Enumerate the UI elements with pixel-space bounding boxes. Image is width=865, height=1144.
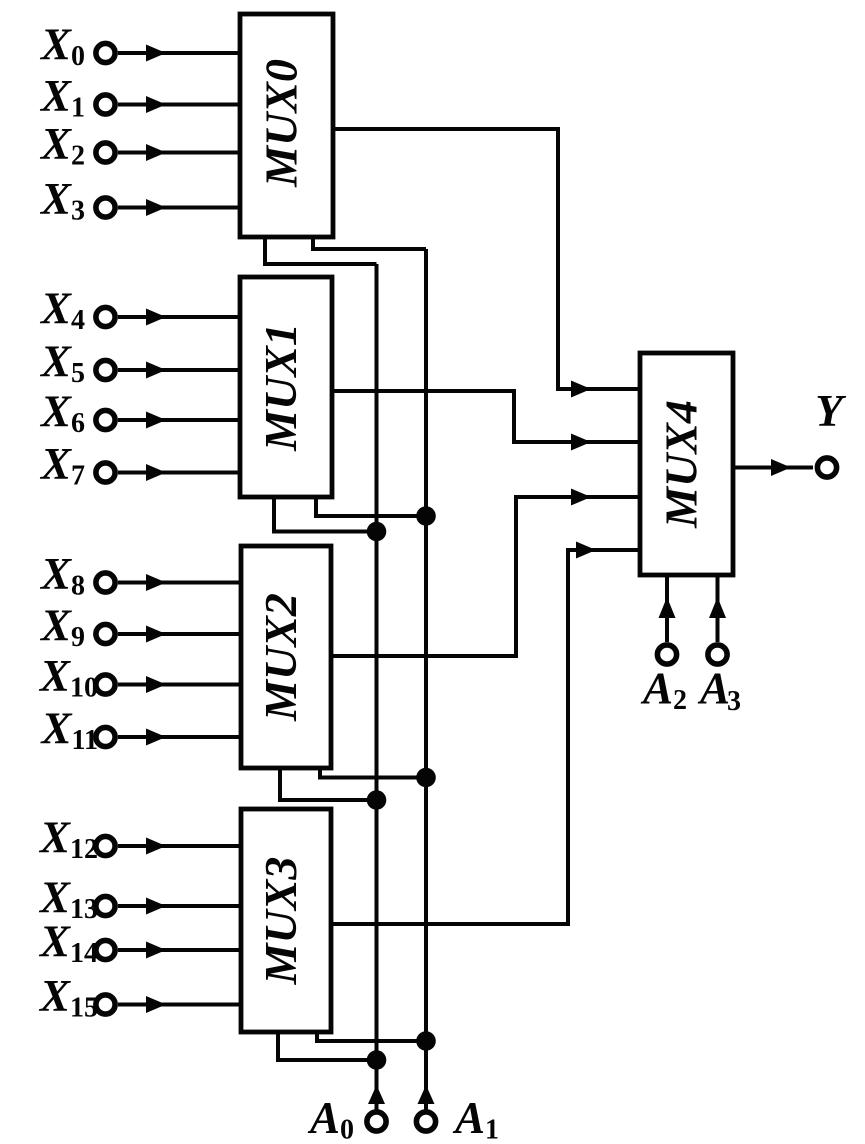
wire MUX2 select pin b to net A1 <box>320 768 426 778</box>
input terminal X10 <box>38 651 115 704</box>
net A0 vertical bus <box>368 264 385 1111</box>
wire X14 to MUX3 pin <box>118 942 241 959</box>
input terminal X8 <box>39 549 115 602</box>
wire X1 to MUX0 pin <box>118 96 240 113</box>
select terminal A0 <box>307 1093 386 1144</box>
wire MUX4 output to Y <box>733 459 813 476</box>
select terminal A2 <box>640 645 687 716</box>
input terminal X1 <box>39 71 115 124</box>
junction A1 bus / MUX2 select <box>416 768 436 788</box>
input terminal X13 <box>38 873 115 926</box>
wire X11 to MUX2 pin <box>118 729 241 746</box>
input terminal X14 <box>38 917 115 970</box>
wire MUX0 select pin a to net A0 <box>265 237 377 264</box>
input terminal X4 <box>39 284 115 337</box>
junction A0 bus / MUX2 select <box>367 790 387 810</box>
wire X2 to MUX0 pin <box>118 144 240 161</box>
input terminal X12 <box>38 813 115 866</box>
svg-text:Y: Y <box>815 386 846 436</box>
wire MUX0 select pin b to net A1 <box>313 237 426 249</box>
wire X8 to MUX2 pin <box>118 574 241 591</box>
svg-text:MUX0: MUX0 <box>256 59 307 188</box>
wire MUX3 select pin b to net A1 <box>317 1032 426 1041</box>
wire X3 to MUX0 pin <box>118 199 240 216</box>
junction A1 bus / MUX1 select <box>416 506 436 526</box>
wire MUX1 select pin a to net A0 <box>274 497 377 532</box>
input terminal X11 <box>40 704 116 757</box>
wire select terminal A3 to MUX4 <box>709 575 726 642</box>
net A1 vertical bus <box>418 249 435 1111</box>
wire MUX3 select pin a to net A0 <box>278 1032 377 1060</box>
select terminal A1 <box>416 1093 499 1144</box>
svg-text:MUX3: MUX3 <box>255 857 306 986</box>
junction A0 bus / MUX3 select <box>367 1050 387 1070</box>
wire MUX0 output to MUX4 input 1 <box>333 129 640 398</box>
wire X9 to MUX2 pin <box>118 626 241 643</box>
wire X13 to MUX3 pin <box>118 898 241 915</box>
input terminal X7 <box>39 439 115 492</box>
junction A0 bus / MUX1 select <box>367 522 387 542</box>
wire X10 to MUX2 pin <box>118 676 241 693</box>
junction A1 bus / MUX3 select <box>416 1031 436 1051</box>
wire MUX1 output to MUX4 input 2 <box>332 391 640 451</box>
mux U3 "MUX3" <box>241 809 331 1032</box>
input terminal X0 <box>39 20 115 73</box>
input terminal X3 <box>39 174 115 227</box>
output terminal Y <box>815 386 846 477</box>
mux U1 "MUX1" <box>240 277 332 497</box>
select terminal A3 <box>697 645 741 717</box>
wire X5 to MUX1 pin <box>118 362 240 379</box>
wire select terminal A2 to MUX4 <box>659 575 676 642</box>
input terminal X5 <box>39 337 115 390</box>
mux U0 "MUX0" <box>240 14 333 237</box>
svg-text:MUX2: MUX2 <box>255 593 306 722</box>
wire MUX2 output to MUX4 input 3 <box>331 489 640 657</box>
input terminal X6 <box>39 387 115 440</box>
wire MUX3 output to MUX4 input 4 <box>331 542 640 925</box>
wire X0 to MUX0 pin <box>118 45 240 62</box>
svg-text:MUX1: MUX1 <box>255 323 306 452</box>
wire X4 to MUX1 pin <box>118 309 240 326</box>
svg-text:MUX4: MUX4 <box>656 400 707 529</box>
input terminal X9 <box>39 601 115 654</box>
wire MUX2 select pin a to net A0 <box>280 768 377 800</box>
wire X12 to MUX3 pin <box>118 838 241 855</box>
input terminal X15 <box>38 971 115 1024</box>
wire MUX1 select pin b to net A1 <box>316 497 426 516</box>
wire X7 to MUX1 pin <box>118 464 240 481</box>
wire X15 to MUX3 pin <box>118 996 241 1013</box>
wire X6 to MUX1 pin <box>118 412 240 429</box>
input terminal X2 <box>39 119 115 172</box>
mux U4 "MUX4" <box>640 353 733 575</box>
mux U2 "MUX2" <box>241 546 331 768</box>
